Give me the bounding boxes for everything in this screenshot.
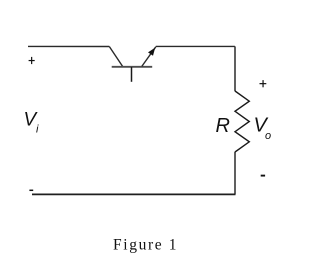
transistor Q1 collector lead	[109, 47, 122, 67]
plus sign right port	[260, 80, 267, 87]
wire top-right (emitter to R)	[156, 45, 235, 47]
wire bottom	[32, 193, 236, 195]
plus sign left port	[29, 57, 35, 64]
transistor Q1 emitter arrowhead	[148, 48, 155, 56]
wire right vertical lower	[234, 152, 236, 195]
minus sign left port	[29, 189, 33, 191]
resistor R zigzag	[235, 91, 249, 152]
wire right vertical upper	[234, 46, 236, 91]
wire top-left (Vi+ to transistor collector)	[28, 45, 109, 47]
transistor Q1 base lead	[131, 67, 133, 82]
transistor Q1 base bar	[112, 66, 153, 68]
svg-text:R: R	[216, 115, 230, 137]
transistor Q1 emitter lead	[142, 47, 156, 67]
minus sign right port	[261, 175, 265, 177]
svg-text:o: o	[265, 130, 271, 142]
svg-text:Figure 1: Figure 1	[113, 236, 177, 253]
svg-text:i: i	[36, 124, 39, 136]
